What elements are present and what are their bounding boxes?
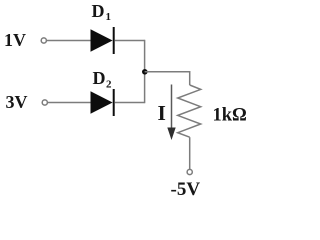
wire D1 cathode to corner bbox=[115, 40, 145, 42]
wire resistor to -5V terminal bbox=[189, 137, 191, 169]
svg-text:-5V: -5V bbox=[171, 179, 201, 200]
svg-text:1kΩ: 1kΩ bbox=[213, 106, 247, 126]
terminal 3V bbox=[42, 100, 47, 105]
svg-text:1: 1 bbox=[106, 11, 112, 23]
svg-text:1V: 1V bbox=[4, 30, 26, 50]
label D2 bbox=[93, 68, 113, 91]
resistor R 1k zigzag bbox=[178, 85, 201, 137]
wire vertical bus D1 to D2 bbox=[144, 40, 146, 103]
svg-text:D: D bbox=[93, 68, 106, 88]
wire 1V terminal to D1 anode bbox=[47, 40, 91, 42]
wire junction to resistor branch bbox=[145, 72, 190, 85]
current arrow I bbox=[167, 85, 175, 141]
svg-text:D: D bbox=[92, 1, 105, 21]
node junction dot bbox=[142, 69, 148, 75]
svg-text:I: I bbox=[158, 101, 166, 125]
diode D1 bbox=[91, 27, 115, 54]
wire D2 cathode to vertical bus bbox=[115, 102, 145, 104]
diode D2 bbox=[91, 89, 115, 116]
svg-text:2: 2 bbox=[106, 79, 112, 91]
wire 3V terminal to D2 anode bbox=[48, 102, 91, 104]
terminal -5V bbox=[187, 169, 192, 174]
terminal 1V bbox=[41, 38, 46, 43]
svg-text:3V: 3V bbox=[6, 92, 28, 112]
label D1 bbox=[92, 1, 112, 23]
